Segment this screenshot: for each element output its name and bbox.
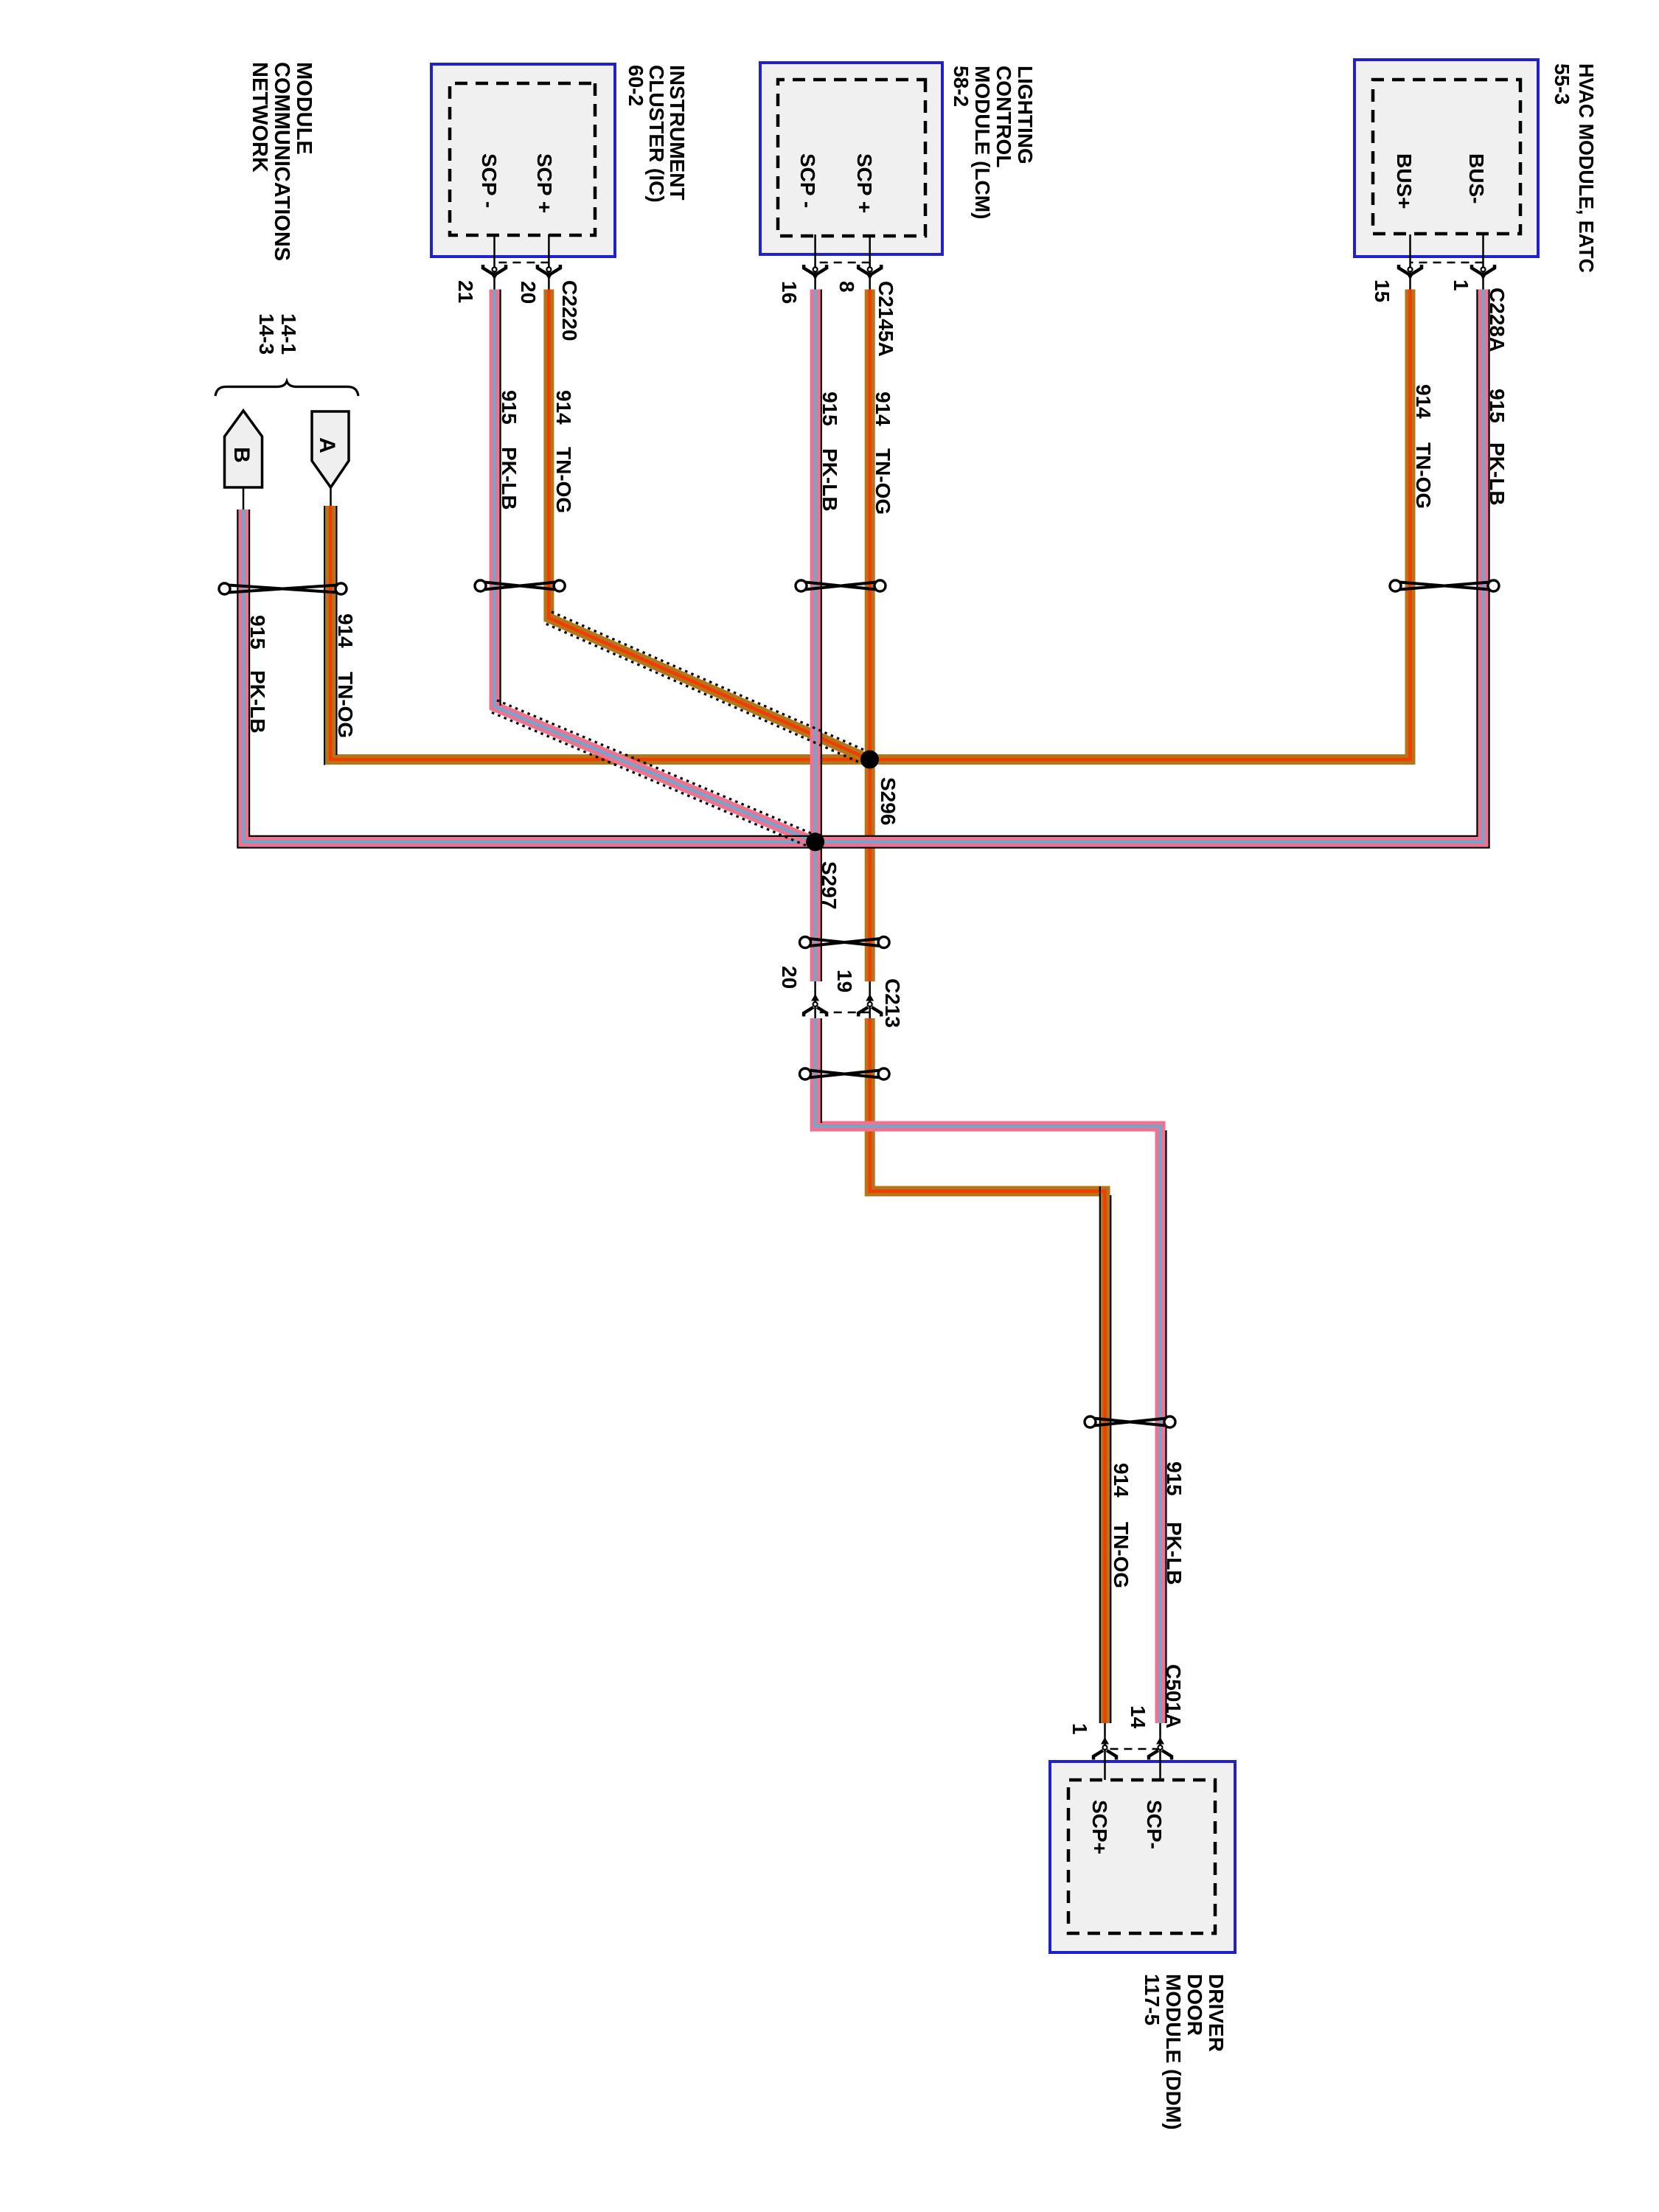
harness symbol at DDM pair (1085, 1416, 1175, 1427)
dotted borders on 914 diagonal (546, 624, 867, 765)
svg-text:14-1: 14-1 (277, 313, 300, 355)
pin lead SCP+ (pin 1) (1104, 1723, 1106, 1780)
svg-text:C213: C213 (881, 978, 904, 1028)
pin lead SCP- (pin 16) (814, 234, 816, 298)
svg-text:SCP -: SCP - (478, 153, 501, 208)
pin terminal arrow LCM pin 16 (804, 265, 827, 280)
connector C2220 dashed bracket (495, 262, 549, 264)
svg-text:914: 914 (552, 390, 575, 425)
connector C213 dashed bracket (815, 1012, 870, 1014)
wire edge line 915 DDM segment (1165, 1130, 1166, 1723)
svg-text:S296: S296 (877, 777, 900, 825)
svg-text:914: 914 (1412, 384, 1435, 419)
svg-text:117-5: 117-5 (1141, 1974, 1164, 2025)
svg-text:DOOR: DOOR (1183, 1974, 1206, 2036)
svg-text:19: 19 (833, 970, 856, 992)
wire 914 TN-OG IC SCP+ segment with diagonal to S296 (549, 290, 869, 760)
wire 915 PK-LB bus: HVAC BUS- to splice junction to connector B (243, 290, 1483, 842)
svg-text:21: 21 (454, 280, 477, 303)
svg-text:TN-OG: TN-OG (1412, 442, 1435, 509)
inline terminal arrow C213 pin 19 (858, 994, 881, 1017)
connector C501A dashed bracket (1105, 1748, 1161, 1750)
svg-text:20: 20 (778, 966, 801, 989)
svg-text:20: 20 (517, 281, 540, 304)
splice S296 (860, 751, 879, 769)
svg-text:MODULE (LCM): MODULE (LCM) (971, 66, 994, 219)
svg-text:1: 1 (1068, 1723, 1091, 1735)
pin lead BUS- (pin 1) (1482, 234, 1484, 298)
harness symbol at connector A/B pair (219, 583, 347, 594)
svg-text:15: 15 (1371, 279, 1394, 302)
inline terminal arrow DDM pin 14 (1149, 1737, 1172, 1760)
svg-text:915: 915 (818, 392, 841, 426)
svg-text:A: A (315, 437, 339, 453)
svg-text:CONTROL: CONTROL (992, 66, 1015, 167)
pin lead SCP- (pin 21) (493, 234, 495, 298)
brace for off-page references 14-1 14-3 (215, 381, 358, 396)
wire 914 TN-OG LCM SCP+ segment to C213 (865, 290, 875, 982)
svg-text:C228A: C228A (1486, 288, 1509, 352)
svg-text:TN-OG: TN-OG (1110, 1522, 1133, 1588)
svg-text:14-3: 14-3 (255, 313, 278, 355)
inline terminal arrow DDM pin 1 (1093, 1737, 1116, 1760)
pin lead SCP+ (pin 8) (869, 234, 871, 298)
svg-text:14: 14 (1127, 1705, 1150, 1729)
svg-text:914: 914 (1110, 1463, 1133, 1498)
svg-text:MODULE (DDM): MODULE (DDM) (1162, 1974, 1185, 2130)
wire edge lines 915 bus outer (237, 290, 1489, 848)
svg-text:LIGHTING: LIGHTING (1014, 66, 1037, 164)
wire edge line 915 LCM segment (821, 290, 822, 982)
svg-text:PK-LB: PK-LB (1163, 1522, 1186, 1585)
svg-text:SCP -: SCP - (796, 153, 819, 208)
svg-text:C2145A: C2145A (874, 281, 897, 357)
svg-text:TN-OG: TN-OG (334, 672, 357, 738)
svg-text:914: 914 (872, 392, 894, 426)
svg-text:NETWORK: NETWORK (248, 62, 271, 173)
svg-text:55-3: 55-3 (1551, 63, 1573, 105)
svg-text:HVAC MODULE, EATC: HVAC MODULE, EATC (1575, 63, 1598, 273)
svg-text:1: 1 (1450, 279, 1472, 291)
harness symbol after C213 (800, 1068, 890, 1079)
off-page connector B (225, 411, 262, 509)
svg-text:TN-OG: TN-OG (552, 447, 575, 513)
pin lead SCP+ (pin 20) (548, 234, 550, 298)
svg-text:SCP-: SCP- (1143, 1800, 1166, 1849)
svg-text:PK-LB: PK-LB (246, 670, 269, 734)
svg-text:BUS-: BUS- (1465, 153, 1488, 204)
svg-text:MODULE: MODULE (292, 62, 316, 155)
module box INSTRUMENT CLUSTER (IC) (431, 64, 615, 257)
dotted borders on 915 diagonal (492, 712, 812, 848)
svg-text:CLUSTER (IC): CLUSTER (IC) (645, 65, 668, 203)
svg-text:16: 16 (778, 281, 801, 304)
wire edge line 915 IC segment (499, 290, 501, 706)
wire edge lines 914 DDM segment (1110, 1195, 1111, 1723)
pin terminal arrow HVAC pin 15 (1399, 265, 1422, 280)
pin terminal arrow LCM pin 8 (858, 265, 881, 280)
wire 915 PK-LB IC SCP- segment with diagonal to S297 (495, 290, 815, 842)
connector C213 leads (869, 981, 871, 1026)
module box LIGHTING CONTROL MODULE (LCM) (760, 63, 942, 254)
svg-text:915: 915 (1163, 1461, 1186, 1496)
connector C2145A dashed bracket (815, 262, 870, 264)
module box HVAC MODULE EATC (1354, 60, 1538, 257)
svg-text:BUS+: BUS+ (1393, 153, 1416, 209)
svg-text:TN-OG: TN-OG (872, 448, 894, 515)
wire 915 PK-LB LCM SCP- segment to C213 (810, 290, 821, 982)
svg-text:914: 914 (334, 613, 357, 648)
svg-text:DRIVER: DRIVER (1205, 1974, 1228, 2052)
module box DRIVER DOOR MODULE (DDM) (1050, 1761, 1235, 1952)
pin terminal arrow IC pin 20 (538, 265, 560, 280)
svg-text:915: 915 (246, 615, 269, 650)
off-page connector A (312, 411, 349, 506)
splice S297 (806, 832, 824, 851)
svg-text:915: 915 (1486, 389, 1509, 423)
svg-text:C501A: C501A (1162, 1664, 1185, 1728)
svg-text:B: B (229, 447, 254, 463)
svg-text:C2220: C2220 (558, 280, 581, 341)
svg-text:PK-LB: PK-LB (1486, 442, 1509, 506)
svg-text:915: 915 (498, 390, 521, 425)
pin terminal arrow IC pin 21 (483, 265, 506, 280)
svg-text:S297: S297 (818, 861, 841, 909)
harness symbol at LCM pair (796, 580, 886, 591)
svg-text:PK-LB: PK-LB (498, 447, 521, 510)
svg-text:PK-LB: PK-LB (818, 448, 841, 512)
wire 915 PK-LB C213 to DDM pin 14 (815, 1018, 1161, 1723)
pin lead BUS+ (pin 15) (1409, 234, 1411, 298)
harness symbol at HVAC pair (1390, 580, 1499, 591)
harness symbol before C213 (800, 937, 890, 948)
wire edge lines 915 bus inner (249, 290, 1477, 836)
wire 914 TN-OG C213 to DDM pin 1 (870, 1018, 1105, 1723)
svg-text:SCP+: SCP+ (1088, 1800, 1111, 1854)
svg-text:COMMUNICATIONS: COMMUNICATIONS (270, 62, 293, 261)
svg-text:58-2: 58-2 (950, 66, 973, 107)
pin terminal arrow HVAC pin 1 (1472, 265, 1495, 280)
svg-text:8: 8 (835, 281, 858, 293)
pin lead SCP- (pin 14) (1159, 1723, 1161, 1780)
svg-text:60-2: 60-2 (625, 65, 647, 106)
svg-text:SCP +: SCP + (853, 153, 876, 213)
harness symbol at IC pair (475, 580, 565, 591)
inline terminal arrow C213 pin 20 (804, 994, 827, 1017)
svg-text:INSTRUMENT: INSTRUMENT (666, 65, 689, 201)
wire edge line 915 after C213 (821, 1018, 822, 1123)
connector C228A dashed bracket (1411, 262, 1484, 264)
svg-text:SCP +: SCP + (533, 153, 556, 213)
wire edge lines 914 connector A segment (335, 506, 337, 755)
wire 914 TN-OG bus: HVAC BUS+ to splice junction to connector A (330, 290, 1410, 760)
